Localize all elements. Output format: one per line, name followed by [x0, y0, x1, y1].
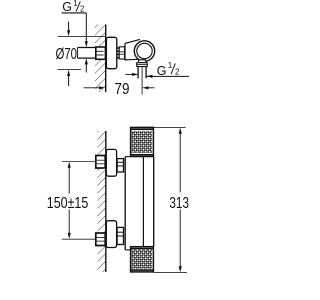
hex nut on inlet (top view)	[96, 47, 106, 59]
313 dimension	[154, 127, 189, 272]
svg-text:313: 313	[169, 195, 189, 212]
body tube lines	[143, 157, 153, 247]
svg-text:1: 1	[73, 0, 77, 8]
dia 70 dimension	[56, 22, 107, 87]
upper connection centerline	[62, 161, 97, 163]
upper escutcheon (side view)	[106, 149, 116, 176]
lower union nut	[117, 227, 123, 244]
lower connection centerline	[62, 238, 97, 240]
G 1/2 label (top left)	[62, 0, 88, 72]
150 +/- 15 dimension	[47, 162, 89, 239]
svg-text:2: 2	[80, 4, 84, 13]
79 dimension	[84, 81, 155, 98]
outlet pipe	[138, 67, 146, 79]
valve body (top view)	[125, 39, 146, 60]
svg-text:2: 2	[175, 68, 179, 77]
upper union nut	[117, 159, 123, 172]
G 1/2 label (right, outlet)	[125, 61, 189, 78]
svg-text:79: 79	[115, 81, 130, 98]
upper knurled handle	[131, 127, 154, 156]
knob outer circle (top view)	[134, 41, 154, 61]
lower knurled handle	[131, 247, 154, 272]
body bracket left edge	[125, 157, 131, 250]
outlet nut	[137, 63, 148, 67]
upper in-wall hex nut	[96, 156, 105, 169]
lower escutcheon (side view)	[106, 221, 116, 248]
svg-text:Ø70: Ø70	[56, 46, 78, 63]
lower in-wall hex nut	[96, 233, 105, 246]
escutcheon plate (top view)	[106, 37, 116, 68]
inlet pipe (behind wall)	[78, 48, 97, 59]
wall (top view)	[95, 24, 106, 92]
wall (bottom view)	[97, 131, 105, 272]
hex section	[119, 47, 124, 59]
svg-text:G: G	[62, 0, 72, 14]
svg-text:G: G	[157, 64, 167, 78]
knob inner circle	[137, 43, 152, 58]
outlet stem below knob	[138, 60, 146, 63]
knurled ring (dashes)	[117, 47, 119, 59]
pipe axis extension line	[141, 67, 143, 95]
svg-text:1: 1	[168, 61, 172, 70]
svg-text:150±15: 150±15	[47, 195, 89, 212]
